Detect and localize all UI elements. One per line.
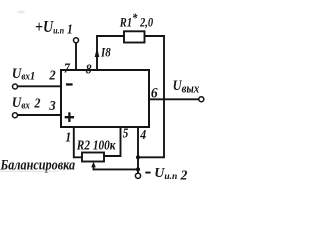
wire pin8 up and right to R1: [97, 36, 124, 70]
label -Uip2: [145, 172, 150, 174]
resistor R1 body: [124, 31, 145, 42]
wire pin6 to output terminal: [149, 98, 199, 100]
faint scan streak: [0, 171, 58, 172]
svg-text:6: 6: [151, 85, 159, 102]
op-amp non-inverting input plus sign: [65, 112, 74, 122]
svg-text:5: 5: [123, 126, 129, 141]
svg-text:2: 2: [48, 67, 56, 83]
svg-text:R2 100к: R2 100к: [76, 138, 116, 153]
wire R1 right side down to negative rail: [145, 36, 165, 157]
junction dot pin4/R1: [136, 155, 140, 159]
svg-text:I8: I8: [100, 44, 111, 59]
wire pin1 down to R2 left: [74, 127, 82, 157]
terminal Uvx1: [13, 84, 18, 89]
op-amp U1 body: [61, 70, 149, 127]
svg-text:8: 8: [86, 61, 92, 77]
terminal Uvyx: [199, 97, 204, 102]
svg-text:3: 3: [48, 98, 56, 114]
wire input 2 to pin 3: [18, 114, 61, 116]
terminal -Uip2: [135, 173, 140, 178]
svg-text:4: 4: [139, 126, 146, 142]
potentiometer R2 body: [82, 153, 104, 162]
terminal +Uip1: [74, 38, 79, 43]
svg-text:Балансировка: Балансировка: [0, 156, 75, 172]
svg-text:7: 7: [64, 59, 70, 75]
faint top smudge: [17, 11, 25, 14]
junction dot pin4/wiper: [136, 167, 140, 171]
wire wiper to negative rail: [94, 167, 139, 170]
wire input 1 to pin 2: [18, 85, 61, 87]
wire pin5 down to R2 right: [104, 127, 121, 156]
svg-text:1: 1: [65, 130, 71, 145]
wire pin7 to +supply terminal: [75, 43, 77, 70]
wire pin4 down to -Uip2 terminal: [137, 127, 139, 173]
terminal Uvx2: [13, 113, 18, 118]
op-amp inverting input minus sign: [66, 83, 73, 85]
R2 wiper arrow: [91, 162, 96, 167]
current arrow I8: [95, 48, 100, 58]
wire junction to R1 drop: [138, 156, 165, 158]
